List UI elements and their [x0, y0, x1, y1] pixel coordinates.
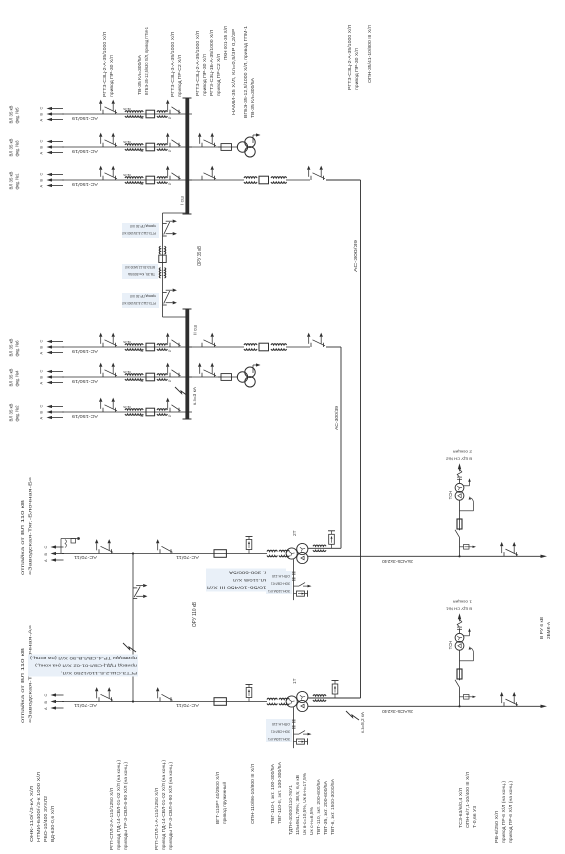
- vacuum breaker VGBE-35: [146, 343, 155, 351]
- svg-text:приводы ТР-4-СВЛ-В-90 Х/Л (на: приводы ТР-4-СВЛ-В-90 Х/Л (на конц.): [29, 656, 137, 660]
- feeder 35kV bay at x=707: line name: [9, 139, 20, 157]
- svg-text:к.з=8,2 кА: к.з=8,2 кА: [360, 712, 365, 733]
- svg-text:Тр: Тр: [167, 349, 171, 353]
- jumper disconnector labels (vertical): [28, 655, 138, 677]
- svg-text:ВГБЭ-35-12,5/1000 Х/Л, привод: ВГБЭ-35-12,5/1000 Х/Л, привод ГПМ-1: [243, 26, 248, 118]
- neutral equipment labels (vertical): [266, 719, 292, 742]
- short-circuit annotation near transformer 1: [346, 710, 365, 733]
- feeder 35kV bay at x=507: line name: [9, 339, 20, 357]
- svg-text:НАМИ-35 Х/Л, Кл=0,5/3Р 0,2/3Р: НАМИ-35 Х/Л, Кл=0,5/3Р 0,2/3Р: [231, 29, 236, 115]
- phase letters: [44, 546, 48, 563]
- voltage transformer NAMI-35 (3 circles): [237, 363, 260, 387]
- svg-text:ВГБЭ-35-12,5/630 Х/Л, привод Г: ВГБЭ-35-12,5/630 Х/Л, привод ГПМ-1: [144, 27, 149, 95]
- arrester stub on TSN branch: [460, 695, 477, 700]
- svg-text:2 секция: 2 секция: [453, 449, 472, 453]
- current transformer: [271, 344, 287, 351]
- breaker VGBE-35: [259, 343, 269, 351]
- svg-text:С: С: [40, 140, 44, 143]
- labels to ShchU SN (vertical): [446, 599, 472, 610]
- svg-text:РГП-СПЛ-1-А-110/1250 Х/Л: РГП-СПЛ-1-А-110/1250 Х/Л: [154, 788, 159, 850]
- left margin labels: 110kV disconnector 1: [109, 759, 128, 850]
- svg-text:В: В: [40, 179, 44, 182]
- svg-text:А: А: [44, 707, 48, 710]
- svg-text:ЗОН-110М-IУ1: ЗОН-110М-IУ1: [268, 589, 290, 593]
- disconnector with 2 earth switches: [99, 333, 117, 347]
- feeder 35kV bay at x=477: line name: [9, 369, 20, 387]
- svg-text:приводы ТР-3-СВЛ-6-90 Х/Л (на: приводы ТР-3-СВЛ-6-90 Х/Л (на конц.): [123, 761, 128, 850]
- feeder 35kV bay at x=674: line name: [9, 172, 20, 190]
- phase letters A B C: [40, 173, 44, 188]
- transformer neutral wire: [293, 559, 295, 600]
- svg-text:к.з=3 кА: к.з=3 кА: [192, 387, 197, 405]
- vacuum breaker VGBE-35: [146, 176, 155, 184]
- SF6 breaker VGT-110: [214, 550, 226, 558]
- main wire down to transformer: [62, 553, 267, 555]
- svg-text:С: С: [40, 370, 44, 373]
- current transformer 2: [157, 111, 171, 121]
- svg-text:ОРУ 110 кВ: ОРУ 110 кВ: [192, 602, 198, 627]
- svg-text:А: А: [40, 119, 44, 122]
- svg-text:С: С: [40, 107, 44, 110]
- junction to jumper: [132, 552, 134, 554]
- svg-text:привод ПД-14-СВЛ-01-02 Х/Л (на: привод ПД-14-СВЛ-01-02 Х/Л (на конц.): [116, 759, 121, 850]
- svg-text:ЗЕ: ЗЕ: [140, 182, 144, 186]
- line disconnector with 2 earth switches: [95, 687, 113, 701]
- bus-side disconnector with earth switch: [166, 333, 181, 347]
- TSN fuse: [457, 501, 462, 531]
- current transformer 2: [157, 374, 171, 384]
- svg-text:ВЛ 35 кВ: ВЛ 35 кВ: [9, 139, 14, 157]
- top-left label block (line measuring devices): [29, 772, 55, 842]
- svg-text:В: В: [40, 146, 44, 149]
- wire from arrows to bus: [62, 346, 192, 348]
- svg-text:А: А: [44, 559, 48, 562]
- TSN knife switch: [455, 679, 460, 687]
- left margin labels: 110kV breaker: [215, 772, 227, 824]
- 35kV lead of transformer 1 with CT and arrester: [308, 681, 361, 702]
- 6kV disconnector labels block: [494, 780, 513, 843]
- svg-text:В: В: [40, 376, 44, 379]
- svg-text:фид. №3: фид. №3: [15, 140, 20, 156]
- svg-text:ТВТ-6, зкт. 1500-3000/5А: ТВТ-6, зкт. 1500-3000/5А: [330, 779, 335, 835]
- wire: [286, 179, 310, 181]
- svg-text:1Т: 1Т: [292, 678, 298, 684]
- svg-text:привод ПР-30 Х/Л: привод ПР-30 Х/Л: [130, 294, 156, 298]
- svg-text:ОПН-35/41-10/800 III Х/Л: ОПН-35/41-10/800 III Х/Л: [367, 25, 372, 83]
- svg-text:ВЛ 35 кВ: ВЛ 35 кВ: [9, 106, 14, 124]
- svg-text:В ЩУ СН №2: В ЩУ СН №2: [446, 456, 472, 460]
- svg-text:ОПН-Н-110: ОПН-Н-110: [272, 574, 290, 578]
- disconnector with 2 earth switches: [99, 100, 117, 114]
- svg-text:ТВГ-110-I, зкт. 100-300/5А: ТВГ-110-I, зкт. 100-300/5А: [270, 764, 275, 824]
- feeder arrows (3 phases, pointing up): [47, 405, 65, 419]
- phase letters A B C: [40, 140, 44, 155]
- 6kV line disconnector with 2 earth switches: [500, 542, 518, 556]
- TSN labels block: [458, 772, 477, 828]
- svg-text:ТВ-35 Кл=300/5А: ТВ-35 Кл=300/5А: [250, 77, 255, 118]
- current transformers TVG-110: [267, 550, 289, 557]
- TSN branch junction: [458, 705, 460, 707]
- left margin labels: 110kV CT: [270, 762, 282, 824]
- breaker VGBE-35: [259, 176, 269, 184]
- TSN branch wire: [459, 687, 461, 706]
- svg-text:ТВГ-110-II, зкт. 100-300/5А: ТВГ-110-II, зкт. 100-300/5А: [277, 762, 282, 824]
- phase letters A B C: [40, 370, 44, 385]
- svg-text:ТСН: ТСН: [448, 641, 453, 650]
- fuse PKN 001-35: [218, 144, 238, 151]
- fault locator tap with dot: [61, 537, 80, 553]
- 6kV line disconnector with 2 earth switches: [500, 692, 518, 706]
- current transformer TV-35: [123, 370, 143, 383]
- svg-text:ВЛ 35 кВ: ВЛ 35 кВ: [9, 339, 14, 357]
- svg-text:Тр: Тр: [167, 149, 171, 153]
- jumper disconnector with 2 earth switches: [133, 584, 147, 599]
- svg-text:ЗЕ: ЗЕ: [140, 149, 144, 153]
- neutral grounding knife ZON-110: [294, 731, 312, 736]
- 35kV transformer bay at x=674: bus-side disconnector: [189, 166, 244, 180]
- arrow to station service board: [458, 613, 461, 619]
- svg-text:АС-150/19: АС-150/19: [71, 182, 98, 187]
- svg-text:В: В: [44, 553, 48, 556]
- current transformer 2: [157, 144, 171, 154]
- svg-text:ОРУ 35 кВ: ОРУ 35 кВ: [197, 246, 203, 266]
- tie disconnector 2 (bus II side) with 2 earth switches: [163, 289, 177, 306]
- labels for tie disconnector 2 (vertical): [122, 293, 159, 308]
- svg-text:3хАСБ-3х240: 3хАСБ-3х240: [381, 709, 413, 714]
- svg-text:АС-70/11: АС-70/11: [73, 555, 97, 560]
- surge arrester OPN-110 (horizontal): [246, 537, 253, 554]
- bus-side disconnector with earth switch: [166, 133, 181, 147]
- svg-text:отпайка от ВЛ 110 кВ: отпайка от ВЛ 110 кВ: [19, 648, 25, 723]
- TSN branch wire: [459, 537, 461, 556]
- svg-text:1 секция: 1 секция: [453, 599, 472, 603]
- svg-text:2Т: 2Т: [292, 530, 298, 536]
- wire run to transformer (AC-300 lead): [326, 347, 341, 548]
- svg-text:С: С: [44, 694, 48, 697]
- svg-text:ЗЕ: ЗЕ: [140, 349, 144, 353]
- line disconnector with 2 earth switches: [95, 539, 113, 553]
- svg-text:РГТЗ-СЗЦ-2-А-35/1000 Х/Л: РГТЗ-СЗЦ-2-А-35/1000 Х/Л: [102, 32, 107, 97]
- svg-text:Uк в-с=10,5%, Uк в-н=17,5%: Uк в-с=10,5%, Uк в-н=17,5%: [302, 773, 307, 835]
- disconnector with 2 earth switches: [99, 133, 117, 147]
- svg-text:фид. №4: фид. №4: [15, 370, 20, 386]
- svg-text:Тр: Тр: [167, 116, 171, 120]
- svg-text:3хАСБ-3х240: 3хАСБ-3х240: [381, 559, 413, 564]
- svg-text:ЗЕ 2S: ЗЕ 2S: [123, 173, 131, 177]
- voltage transformer NAMI-35 (3 circles): [237, 133, 260, 157]
- svg-text:В ЩУ СН №1: В ЩУ СН №1: [446, 606, 472, 610]
- svg-text:ЗЕ 2S: ЗЕ 2S: [123, 370, 131, 374]
- svg-text:РГТЗ-СШ-2-Б-35/1000 Х/Л: РГТЗ-СШ-2-Б-35/1000 Х/Л: [122, 301, 156, 305]
- power transformer 2Т (three-winding): [286, 543, 308, 563]
- bus: 35kV section I busbar (I sh): [180, 98, 192, 214]
- arrow to station service board: [458, 463, 461, 469]
- svg-text:ТВТ-110, зкт. 200-600/5А: ТВТ-110, зкт. 200-600/5А: [316, 779, 321, 835]
- 6kV line end arrow: [541, 555, 548, 558]
- svg-text:ЗЕ 2S: ЗЕ 2S: [123, 340, 131, 344]
- main wire down to transformer: [62, 701, 267, 703]
- wire from arrows to bus: [62, 179, 192, 181]
- short-circuit bolt at jumper: [123, 643, 136, 652]
- svg-text:ЗЕ: ЗЕ: [140, 379, 144, 383]
- svg-text:АС-150/19: АС-150/19: [71, 379, 98, 384]
- svg-text:ЗЕ 2S: ЗЕ 2S: [123, 405, 131, 409]
- svg-text:АС-150/19: АС-150/19: [71, 414, 98, 419]
- SF6 breaker VGT-110: [214, 698, 226, 706]
- bus-side disconnector with earth switch: [166, 100, 181, 114]
- 35kV lead of transformer 2 with CT and arrester: [308, 531, 341, 552]
- 6kV lead of transformer 1: vertical wire: [308, 705, 541, 707]
- svg-text:А: А: [40, 382, 44, 385]
- svg-text:ВЛ 35 кВ: ВЛ 35 кВ: [9, 404, 14, 422]
- line-side disconnector with 2 earth switches: [307, 333, 325, 347]
- svg-text:А: А: [40, 352, 44, 355]
- wire run to transformer (AC-300 lead): [326, 180, 361, 698]
- tie current transformer 1: [159, 246, 166, 254]
- wire from arrows to bus: [62, 376, 192, 378]
- svg-text:В РУ 6 кВ: В РУ 6 кВ: [539, 617, 544, 639]
- current transformer TV-35: [123, 405, 143, 418]
- svg-text:ВД-630-0,6 Х/Л: ВД-630-0,6 Х/Л: [50, 806, 55, 842]
- transformer specification block: [288, 773, 335, 835]
- current transformer 2: [157, 409, 171, 419]
- feeder arrows (3 phases, pointing up): [47, 340, 65, 354]
- current transformer: [244, 177, 257, 184]
- svg-text:А: А: [40, 417, 44, 420]
- left margin labels: 110kV disconnector 2: [154, 759, 173, 850]
- svg-text:ВГТ-110Р* 40/2500 Х/Л: ВГТ-110Р* 40/2500 Х/Л: [215, 772, 220, 824]
- power transformer 1Т (three-winding): [286, 691, 308, 711]
- tie current transformer 2: [159, 268, 166, 278]
- svg-text:ЗОН-СВЛ-01: ЗОН-СВЛ-01: [271, 582, 290, 586]
- TSN tail fuse link: [457, 468, 462, 483]
- svg-text:РВ-6/250 Х/Л: РВ-6/250 Х/Л: [494, 811, 499, 843]
- TSN branch junction: [458, 555, 460, 557]
- svg-text:ВЛ 35 кВ: ВЛ 35 кВ: [9, 369, 14, 387]
- bus-side disconnector with earth switch: [166, 166, 181, 180]
- 110kV line 2: name labels: [19, 476, 33, 575]
- svg-text:привод ПР-С2 Х/Л: привод ПР-С2 Х/Л: [216, 54, 221, 96]
- svg-text:Uк с-н=6,5%: Uк с-н=6,5%: [309, 807, 314, 835]
- disconnector with 2 earth switches: [99, 363, 117, 377]
- feeder arrows (3 phases, pointing up): [47, 107, 65, 121]
- TSN fuse: [457, 651, 462, 681]
- phase letters A B C: [40, 405, 44, 420]
- labels for tie breaker and CT (vertical): [122, 264, 158, 279]
- svg-text:В: В: [40, 346, 44, 349]
- svg-text:привод ПДЦ-СВЛ-01-02 Х/Л (на к: привод ПДЦ-СВЛ-01-02 Х/Л (на конц.): [34, 664, 137, 668]
- arrester stub on TSN branch: [460, 545, 477, 550]
- wire from arrows to bus: [62, 411, 192, 413]
- bus-side disconnector with earth switch: [166, 398, 181, 412]
- current transformer TV-35: [123, 340, 143, 353]
- svg-text:Т-0,66 У3: Т-0,66 У3: [472, 805, 477, 828]
- svg-text:ТВ-35 Кл=300/5А: ТВ-35 Кл=300/5А: [137, 54, 142, 95]
- vacuum breaker VGBE-35: [146, 143, 155, 151]
- svg-text:ЗЕ 2S: ЗЕ 2S: [123, 107, 131, 111]
- svg-text:ПКН 001-35 Х/Л: ПКН 001-35 Х/Л: [223, 26, 228, 60]
- 110kV line 1: name labels: [19, 624, 33, 723]
- 6kV line end arrow: [541, 705, 548, 708]
- svg-text:АС-150/19: АС-150/19: [71, 149, 98, 154]
- current transformer 2: [157, 344, 171, 354]
- neutral surge arrester OPN-N (vertical): [294, 738, 308, 744]
- current transformer TV-35: [123, 140, 143, 153]
- svg-text:ВГБЭ-35-12,5/630 Х/Л: ВГБЭ-35-12,5/630 Х/Л: [125, 265, 155, 269]
- fuse PKN 001-35: [218, 374, 238, 381]
- svg-text:РГП-СПЛ-2-А-110/1250 Х/Л: РГП-СПЛ-2-А-110/1250 Х/Л: [109, 788, 114, 850]
- svg-text:РГТЗ-СЗЦ-2-А-35/1000 Х/Л: РГТЗ-СЗЦ-2-А-35/1000 Х/Л: [347, 25, 352, 90]
- 6kV lead of transformer 2: vertical wire: [308, 555, 541, 557]
- second disconnector with earth switch: [156, 539, 173, 553]
- neutral surge arrester OPN-N (vertical): [294, 590, 308, 596]
- 35kV transformer bay at x=507: bus-side disconnector: [189, 333, 244, 347]
- neutral CT ticks: [292, 720, 296, 728]
- svg-text:ТДТН-40000/110-76У1: ТДТН-40000/110-76У1: [288, 784, 293, 835]
- VT bay 35kV at x=477: disconnector with 2 earth switches: [189, 363, 221, 377]
- svg-text:С: С: [40, 173, 44, 176]
- svg-text:Тр: Тр: [167, 379, 171, 383]
- vacuum breaker VGBE-35: [146, 373, 155, 381]
- right margin labels for 35kV lead disconnector and arrester: [347, 25, 372, 90]
- phase letters A B C: [40, 107, 44, 122]
- 110kV jumper between line taps: [132, 554, 134, 702]
- second disconnector with earth switch: [156, 687, 173, 701]
- svg-text:АС-300/39: АС-300/39: [353, 239, 358, 272]
- svg-text:привод ПР-6 Х/Л (на конц.): привод ПР-6 Х/Л (на конц.): [501, 780, 506, 843]
- svg-text:фид. №5: фид. №5: [15, 107, 20, 123]
- svg-text:АС-70/11: АС-70/11: [73, 703, 97, 708]
- svg-text:РГТЗ-СШ-2-Б-110/1250 Х/Л,: РГТЗ-СШ-2-Б-110/1250 Х/Л,: [61, 671, 137, 675]
- svg-text:I сш: I сш: [180, 196, 186, 205]
- svg-text:В: В: [40, 113, 44, 116]
- svg-text:ТСН: ТСН: [448, 491, 453, 500]
- line arrows (3 phases): [51, 693, 65, 709]
- svg-text:фид. №2: фид. №2: [15, 405, 20, 421]
- svg-text:В: В: [40, 411, 44, 414]
- wire from arrows to bus: [62, 113, 192, 115]
- svg-text:С: С: [40, 340, 44, 343]
- current transformer 2: [157, 177, 171, 187]
- svg-text:ВЛ 35 кВ: ВЛ 35 кВ: [9, 172, 14, 190]
- svg-text:ЗОН-110М-IУ1: ЗОН-110М-IУ1: [268, 737, 290, 741]
- tie disconnector 1 (bus I side) with 2 earth switches: [163, 220, 177, 237]
- svg-text:ТВ-35, Кл=300/5А: ТВ-35, Кл=300/5А: [128, 272, 155, 276]
- phase letters: [44, 694, 48, 711]
- feeder 35kV bay at x=442: line name: [9, 404, 20, 422]
- svg-text:ЗЕ: ЗЕ: [140, 116, 144, 120]
- svg-text:С: С: [40, 405, 44, 408]
- svg-text:ЗЕ: ЗЕ: [140, 414, 144, 418]
- current transformer: [244, 344, 257, 351]
- bus: 35kV section II busbar (II sh): [183, 309, 199, 419]
- line-side disconnector with 2 earth switches: [307, 166, 325, 180]
- svg-text:А: А: [40, 185, 44, 188]
- svg-text:ЗЕ 2S: ЗЕ 2S: [123, 140, 131, 144]
- svg-text:привод ПР-30 Х/Л: привод ПР-30 Х/Л: [354, 48, 359, 90]
- disconnector with 2 earth switches: [99, 166, 117, 180]
- TSN tail fuse link: [457, 618, 462, 633]
- current transformers TVG-110: [267, 698, 289, 705]
- current transformer: [271, 177, 287, 184]
- equipment labels near 110kV line 2 (vertical): [206, 569, 287, 592]
- svg-text:фид. №1: фид. №1: [15, 173, 20, 189]
- station service transformer TSN (2 circles): [455, 633, 464, 650]
- disconnector with 2 earth switches: [99, 398, 117, 412]
- svg-text:отпайка от ВЛ 110 кВ: отпайка от ВЛ 110 кВ: [19, 500, 25, 575]
- svg-text:«Заводская-Тяг.-Блочная-Б»: «Заводская-Тяг.-Блочная-Б»: [28, 476, 33, 575]
- line arrows (3 phases): [51, 545, 65, 561]
- surge arrester OPN-110 (horizontal): [246, 685, 253, 702]
- neutral grounding knife ZON-110: [294, 583, 312, 588]
- svg-text:ЗОН-СВЛ-01: ЗОН-СВЛ-01: [271, 730, 290, 734]
- wire: [286, 346, 310, 348]
- VT bay 35kV at x=707: disconnector with 2 earth switches: [189, 133, 221, 147]
- svg-text:АС-150/19: АС-150/19: [71, 116, 98, 121]
- feeder arrows (3 phases, pointing up): [47, 140, 65, 154]
- svg-text:привод ПР-6 Х/Л (на конц.): привод ПР-6 Х/Л (на конц.): [508, 780, 513, 843]
- junction dots on buses: [186, 113, 188, 413]
- svg-text:Тр: Тр: [167, 414, 171, 418]
- svg-text:ОПН-Н-110: ОПН-Н-110: [272, 722, 290, 726]
- svg-text:привод ПД-14-СВЛ-01-02 Х/Л (на: привод ПД-14-СВЛ-01-02 Х/Л (на конц.): [161, 759, 166, 850]
- labels to ShchU SN (vertical): [446, 449, 472, 460]
- vacuum breaker VGBE-35: [146, 110, 155, 118]
- TSN secondary arrow 2: [463, 478, 471, 486]
- svg-text:С: С: [44, 546, 48, 549]
- svg-text:привод ПР-30 Х/Л: привод ПР-30 Х/Л: [202, 54, 207, 96]
- svg-text:ОНК-110/√3-кА Х/Л: ОНК-110/√3-кА Х/Л: [29, 786, 34, 842]
- transformer neutral wire: [293, 707, 295, 748]
- neutral CT ticks: [292, 572, 296, 580]
- label ZRU 6 kV: [539, 617, 551, 639]
- svg-text:приводы ТР-3-СВЛ-6-90 Х/Л (на: приводы ТР-3-СВЛ-6-90 Х/Л (на конц.): [168, 761, 173, 850]
- wire from arrows to bus: [62, 146, 192, 148]
- tie breaker VGBE-35: [159, 255, 166, 262]
- svg-text:115±9х1,78%; 38,5; 6,6 кВ: 115±9х1,78%; 38,5; 6,6 кВ: [295, 775, 300, 835]
- feeder arrows (3 phases, pointing up): [47, 370, 65, 384]
- feeder arrows (3 phases, pointing up): [47, 173, 65, 187]
- bus-side disconnector with earth switch: [166, 363, 181, 377]
- right margin equipment labels for 35kV bays: [102, 26, 255, 118]
- TSN secondary tap with arrow: [460, 646, 474, 661]
- vacuum breaker VGBE-35: [146, 408, 155, 416]
- svg-text:ТСЗ-63/6/0,4 Х/Л: ТСЗ-63/6/0,4 Х/Л: [458, 788, 463, 828]
- neutral equipment labels (vertical): [266, 571, 292, 594]
- svg-text:АС-70/11: АС-70/11: [175, 555, 199, 560]
- current transformer TV-35: [123, 173, 143, 186]
- short-circuit annotation at bus II: [175, 386, 197, 405]
- feeder 35kV bay at x=740: line name: [9, 106, 20, 124]
- labels for tie disconnector 1 (vertical): [122, 223, 159, 238]
- svg-text:привод пружинный: привод пружинный: [222, 781, 227, 824]
- svg-text:фид. №6: фид. №6: [15, 340, 20, 356]
- svg-text:А: А: [40, 152, 44, 155]
- phase letters A B C: [40, 340, 44, 355]
- svg-text:ОПН-110/86-10/800 III Х/Л: ОПН-110/86-10/800 III Х/Л: [250, 764, 255, 824]
- svg-text:АС-70/11: АС-70/11: [175, 703, 199, 708]
- svg-text:ТВТ-35, зкт. 200-600/5А: ТВТ-35, зкт. 200-600/5А: [323, 781, 328, 835]
- svg-text:привод ПР-30 Х/Л: привод ПР-30 Х/Л: [130, 224, 156, 228]
- TSN secondary tap with arrow: [460, 496, 474, 511]
- station service transformer TSN (2 circles): [455, 483, 464, 500]
- svg-text:привод ПР-С2 Х/Л: привод ПР-С2 Х/Л: [177, 55, 182, 97]
- svg-text:НТМИ-6400/√3-к 1000 Х/Л: НТМИ-6400/√3-к 1000 Х/Л: [36, 772, 41, 842]
- junction to jumper: [132, 700, 134, 702]
- svg-text:Тр: Тр: [167, 182, 171, 186]
- svg-text:В: В: [44, 701, 48, 704]
- 35kV bus tie: wire from bus I: [163, 213, 190, 317]
